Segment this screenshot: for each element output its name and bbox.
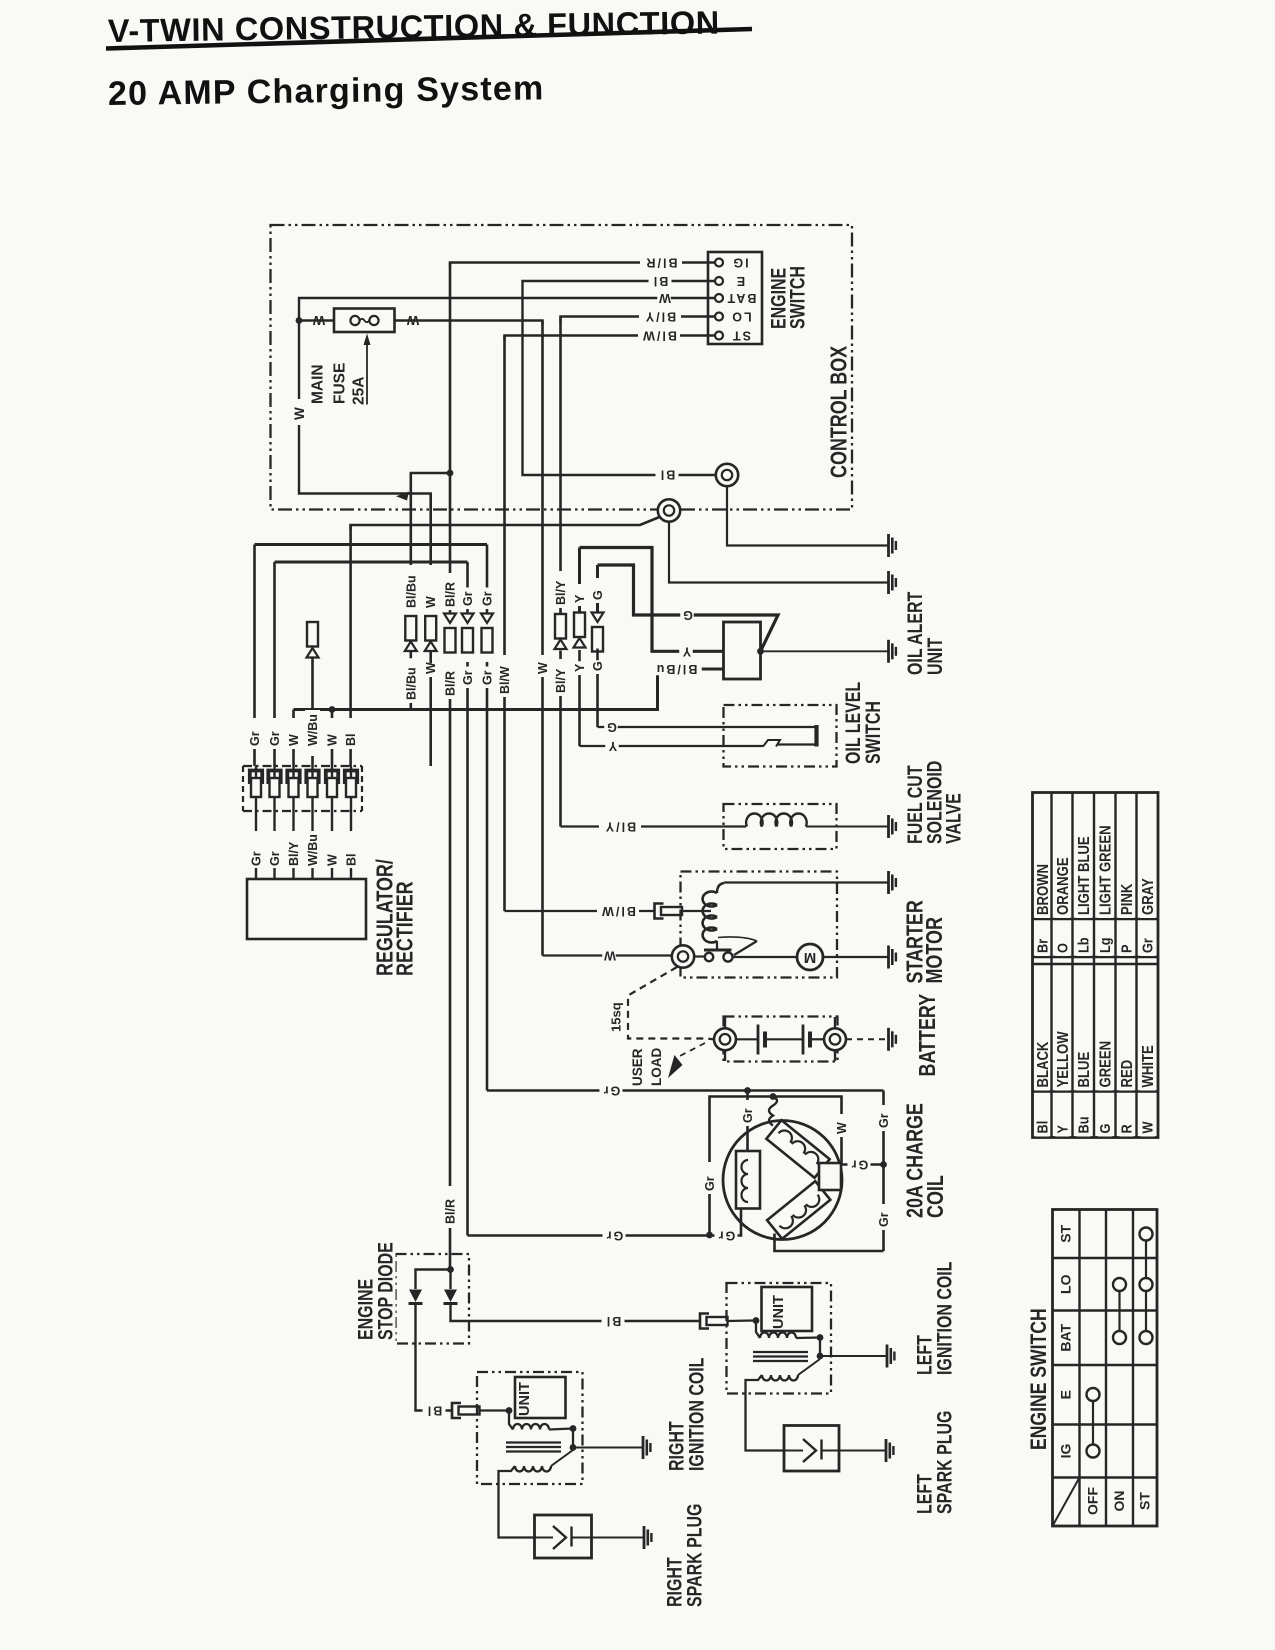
- label Bl/W (starter): [597, 905, 639, 918]
- wire to diode D1: [416, 1270, 451, 1290]
- left coil core: [753, 1351, 808, 1353]
- label Bl (right coil): [423, 1404, 446, 1417]
- wire Bl/R column: [449, 263, 452, 614]
- battery terminal left: [714, 1028, 736, 1050]
- label MAIN FUSE 25A: [310, 363, 325, 407]
- wire Gr top line: [487, 1089, 884, 1092]
- left ignition coil box: [727, 1283, 832, 1394]
- starter solenoid coil: [703, 892, 717, 943]
- wire Gr2 column left: [273, 562, 276, 766]
- wire W column left (from bus): [292, 710, 295, 767]
- svg-text:LIGHT GREEN: LIGHT GREEN: [1097, 825, 1114, 915]
- svg-text:UNIT: UNIT: [771, 1295, 787, 1329]
- wire left coil top: [746, 1091, 749, 1152]
- subtitle: [108, 69, 545, 113]
- table cell O: [1055, 942, 1069, 956]
- svg-text:BATTERY: BATTERY: [915, 994, 941, 1077]
- svg-text:W: W: [1139, 1121, 1156, 1134]
- strip pin 3: [287, 771, 299, 785]
- svg-text:W: W: [326, 854, 340, 866]
- wire Bl/Y column: [559, 317, 562, 615]
- title underline: [106, 29, 752, 49]
- table cell BROWN: [1035, 871, 1050, 918]
- svg-text:25A: 25A: [351, 377, 368, 405]
- left plug gap: [784, 1450, 803, 1452]
- label 20A CHARGE COIL: [904, 1104, 926, 1221]
- wire from ring2 to ground: [669, 522, 889, 583]
- engine switch box: [708, 252, 762, 344]
- right coil secondary: [515, 1466, 551, 1472]
- starter contact circles: [705, 953, 713, 961]
- junction dot left primary: [817, 1334, 824, 1341]
- strip pin 2: [268, 771, 280, 785]
- svg-text:IG: IG: [1058, 1444, 1074, 1459]
- left coil UNIT box: [762, 1287, 813, 1331]
- left spark plug box: [784, 1426, 839, 1472]
- svg-text:LOAD: LOAD: [649, 1048, 664, 1086]
- wire Bl/R tee to Bl/Bu column: [411, 473, 450, 478]
- connector ring starter: [672, 945, 694, 967]
- junction dot stop diode: [447, 1266, 454, 1273]
- wire W: BAT terminal to fuse junction: [299, 298, 715, 497]
- svg-text:YELLOW: YELLOW: [1055, 1031, 1072, 1087]
- wire W to starter: [543, 954, 672, 956]
- svg-text:Br: Br: [1033, 938, 1050, 953]
- engine stop diode box: [396, 1254, 470, 1344]
- svg-text:ST: ST: [731, 329, 751, 343]
- svg-text:W: W: [326, 734, 340, 746]
- svg-text:ON: ON: [1111, 1491, 1127, 1512]
- wire left plug ground: [839, 1450, 886, 1452]
- ST contacts BAT-LO-ST: [1145, 1241, 1147, 1279]
- svg-text:E: E: [1058, 1390, 1074, 1399]
- oil alert unit box: [724, 622, 761, 679]
- wire D2 to left coil: [451, 1304, 701, 1322]
- label Y (oil level): [605, 740, 619, 753]
- ground (solenoid): [887, 871, 890, 894]
- svg-text:Bl/R: Bl/R: [444, 1199, 458, 1224]
- solenoid coil L1: [746, 814, 807, 827]
- ground (right coil): [642, 1436, 645, 1459]
- diode D2: [449, 1270, 451, 1290]
- connector ring 2 (on box edge): [658, 499, 680, 521]
- label W (below): [425, 663, 437, 677]
- svg-text:BROWN: BROWN: [1035, 864, 1052, 915]
- svg-text:SWITCH: SWITCH: [785, 266, 809, 329]
- label RIGHT IGNITION COIL: [667, 1419, 687, 1474]
- table cell LIGHT BLUE: [1076, 831, 1091, 918]
- svg-text:O: O: [1053, 943, 1070, 953]
- wire contacts to motor: [733, 956, 798, 958]
- bottom-right stator coil: [767, 1181, 830, 1239]
- strip pin 1: [250, 771, 262, 785]
- svg-text:Bl/Bu: Bl/Bu: [655, 662, 698, 676]
- table cell WHITE: [1140, 1044, 1155, 1091]
- label Bl/Bu (above): [405, 566, 417, 611]
- svg-text:CONTROL BOX: CONTROL BOX: [826, 346, 852, 478]
- ground (right plug): [643, 1526, 646, 1549]
- svg-text:W: W: [424, 662, 438, 674]
- wire right plug ground: [592, 1537, 645, 1539]
- table cell W: [1141, 1123, 1155, 1137]
- svg-text:Bl: Bl: [1033, 1121, 1050, 1134]
- svg-text:Bl/W: Bl/W: [641, 329, 677, 343]
- label Bl/Y (fuel cut): [599, 820, 641, 833]
- label ENGINE STOP DIODE: [356, 1278, 376, 1343]
- junction dot core right: [570, 1444, 577, 1451]
- label CONTROL BOX: [828, 353, 850, 481]
- label Gr A (above): [462, 588, 474, 610]
- wire W5 column left (from bus dot): [331, 710, 334, 767]
- strip pin 4: [306, 771, 318, 785]
- label OIL ALERT UNIT: [905, 583, 925, 678]
- svg-text:Bl: Bl: [345, 854, 359, 867]
- table cell GRAY: [1140, 879, 1155, 918]
- connector Gr B: [481, 614, 493, 624]
- label BATTERY: [916, 996, 938, 1080]
- junction dot primary right: [570, 1425, 577, 1432]
- connector strip outline: [243, 765, 362, 767]
- label G (oil alert): [680, 609, 694, 622]
- svg-text:Y: Y: [573, 663, 587, 672]
- svg-text:STOP DIODE: STOP DIODE: [373, 1242, 397, 1340]
- user load dashed branch: [676, 1043, 705, 1058]
- label Gr (center): [848, 1158, 871, 1171]
- svg-text:PINK: PINK: [1119, 883, 1136, 915]
- label W2 (mid): [535, 655, 551, 675]
- label G (above): [590, 578, 605, 600]
- table cell PINK: [1119, 879, 1134, 918]
- label Y (below): [574, 661, 586, 675]
- battery terminal right: [824, 1028, 846, 1050]
- svg-text:MOTOR: MOTOR: [922, 917, 948, 983]
- svg-text:Bl/Y: Bl/Y: [287, 841, 301, 866]
- wire motor to ground: [823, 956, 889, 958]
- wire oil alert ground: [761, 650, 889, 652]
- svg-text:G: G: [605, 720, 617, 734]
- junction dot line2: [770, 1093, 777, 1100]
- svg-text:W: W: [835, 1122, 849, 1134]
- svg-text:Gr: Gr: [481, 670, 495, 685]
- label Bl/R: [640, 256, 682, 269]
- svg-text:Gr: Gr: [268, 851, 282, 866]
- label LEFT IGNITION COIL: [915, 1332, 935, 1378]
- svg-text:Bl: Bl: [652, 274, 669, 288]
- wire Bl/Y: LO terminal to column: [561, 317, 716, 323]
- svg-text:LO: LO: [1058, 1274, 1074, 1294]
- table cell BLACK: [1035, 1044, 1050, 1091]
- wire solenoid to ground: [806, 826, 889, 828]
- svg-text:RECTIFIER: RECTIFIER: [392, 881, 418, 976]
- wire W column (group1): [429, 494, 432, 566]
- label USER LOAD: [631, 1050, 644, 1089]
- table cell P: [1119, 942, 1133, 956]
- wire Gr column A: [466, 562, 469, 613]
- svg-text:20 AMP Charging System: 20 AMP Charging System: [108, 69, 545, 113]
- svg-text:W: W: [287, 734, 301, 746]
- main fuse F1 25A: [334, 309, 395, 333]
- solenoid plunger: [716, 941, 718, 949]
- center terminal block: [819, 1163, 841, 1190]
- svg-text:Gr: Gr: [741, 1108, 755, 1123]
- label W (starter): [602, 949, 616, 962]
- label W (left of fuse): [311, 314, 325, 327]
- label LEFT SPARK PLUG: [915, 1471, 935, 1517]
- svg-text:UNIT: UNIT: [517, 1382, 533, 1416]
- label Gr B (below): [481, 667, 493, 689]
- svg-text:BLACK: BLACK: [1035, 1041, 1052, 1087]
- table cell RED: [1119, 1060, 1134, 1090]
- connector W: [425, 616, 436, 641]
- label Bl/Y (below): [555, 659, 567, 696]
- user load arrow: [668, 1055, 683, 1078]
- svg-text:Gr: Gr: [877, 1212, 891, 1227]
- wire W fuse right to W2 column: [395, 321, 543, 326]
- label W (above): [425, 597, 437, 611]
- label Bl/Y (above): [555, 571, 567, 608]
- wire Y bracket to oil alert: [580, 548, 723, 652]
- svg-text:Bl/Y: Bl/Y: [644, 310, 676, 324]
- label W on vertical wire: [291, 399, 307, 425]
- table cell Bu: [1077, 1115, 1091, 1137]
- wire Gr-A to coil bottom: [468, 1234, 710, 1237]
- right spark plug box: [535, 1515, 592, 1558]
- svg-text:IGNITION COIL: IGNITION COIL: [684, 1358, 708, 1471]
- svg-text:G: G: [1096, 1124, 1113, 1134]
- wire color code table: [1033, 793, 1159, 1138]
- svg-text:Gr: Gr: [481, 591, 495, 606]
- svg-text:W: W: [292, 407, 307, 420]
- table cell Gr: [1141, 934, 1155, 956]
- label Gr A (below): [462, 667, 474, 689]
- engine switch terminal E: [715, 277, 723, 285]
- label Bl near connector: [656, 468, 679, 481]
- right plug gap: [535, 1537, 554, 1539]
- connector spade left coil: [700, 1314, 709, 1329]
- label Gr (after dot): [715, 1229, 738, 1242]
- svg-text:Bl/R: Bl/R: [645, 256, 678, 270]
- junction dot W strip: [329, 706, 336, 713]
- table cell YELLOW: [1055, 1036, 1070, 1091]
- label Bl/R (lower): [444, 1190, 456, 1227]
- wire line2: [710, 1097, 842, 1235]
- junction dot right coil input: [506, 1407, 513, 1414]
- svg-text:MAIN: MAIN: [310, 364, 327, 404]
- top-right stator coil: [766, 1120, 829, 1178]
- label Bl/Bu (oil alert): [650, 663, 702, 676]
- label Y (above): [572, 584, 587, 604]
- right coil core: [506, 1441, 561, 1443]
- svg-text:Bl/Y: Bl/Y: [554, 668, 568, 693]
- float switch: [814, 725, 818, 747]
- svg-text:W: W: [602, 949, 616, 963]
- label RIGHT SPARK PLUG: [665, 1555, 685, 1610]
- svg-text:W: W: [424, 596, 438, 608]
- wire Bl/Y to solenoid: [561, 825, 747, 827]
- label Bl/Bu (below): [405, 658, 417, 703]
- label W (BAT wire): [657, 292, 671, 305]
- label STARTER MOTOR: [904, 903, 926, 987]
- wire W2 column: [541, 321, 544, 956]
- junction dot oil alert right: [757, 648, 764, 655]
- wire Bl column left: [349, 525, 352, 766]
- svg-text:Gr: Gr: [268, 731, 282, 746]
- connector G: [592, 613, 604, 623]
- engine switch terminal BAT: [715, 294, 723, 302]
- svg-text:Gr: Gr: [248, 731, 262, 746]
- label Bl (E wire): [649, 275, 672, 288]
- svg-text:Bl: Bl: [344, 734, 358, 747]
- svg-text:Bl/R: Bl/R: [444, 671, 458, 696]
- junction dot left coil input: [753, 1317, 760, 1324]
- table cell LIGHT GREEN: [1098, 823, 1113, 918]
- junction dot right vertical: [880, 1161, 887, 1168]
- table cell Lb: [1077, 934, 1091, 956]
- connector Bl/R: [444, 614, 456, 624]
- svg-text:W: W: [657, 291, 671, 305]
- wire W/Bu column left: [311, 658, 314, 767]
- right coil UNIT box: [515, 1377, 566, 1418]
- W zigzag wire to TR coil: [769, 1097, 777, 1126]
- svg-text:VALVE: VALVE: [941, 793, 965, 844]
- battery cells: [736, 1038, 758, 1040]
- battery box: [724, 1017, 838, 1062]
- svg-text:OFF: OFF: [1085, 1487, 1101, 1515]
- wire dot to left coil bottom: [710, 1209, 742, 1236]
- svg-text:GREEN: GREEN: [1097, 1041, 1114, 1088]
- svg-text:Bl: Bl: [659, 468, 676, 482]
- svg-text:BAT: BAT: [726, 291, 757, 305]
- wire left coil ground: [820, 1355, 887, 1357]
- wire Gr1 column left: [253, 545, 256, 767]
- junction dot top line: [744, 1087, 751, 1094]
- wire right coil to ground: [573, 1447, 643, 1449]
- svg-text:W/Bu: W/Bu: [306, 714, 320, 746]
- svg-text:Y: Y: [573, 594, 587, 603]
- label Gr (bottom wire): [603, 1229, 626, 1242]
- svg-text:Bl/R: Bl/R: [444, 582, 458, 607]
- fuel cut solenoid box: [724, 804, 837, 849]
- label G (below): [592, 660, 604, 674]
- svg-text:LO: LO: [730, 310, 751, 324]
- svg-text:IGNITION COIL: IGNITION COIL: [932, 1262, 956, 1375]
- svg-text:Bl/Bu: Bl/Bu: [404, 575, 418, 608]
- connector Bl/Y: [555, 614, 566, 639]
- label Gr (right top): [876, 1105, 892, 1129]
- label Y (oil alert): [679, 645, 693, 658]
- svg-text:15sq: 15sq: [609, 1002, 624, 1032]
- svg-text:RED: RED: [1119, 1060, 1136, 1088]
- charge coil circle: [723, 1121, 842, 1240]
- table cell R: [1119, 1123, 1133, 1137]
- diagonal wire from ring2 to Bl column: [351, 517, 660, 530]
- junction dot left core: [817, 1353, 824, 1360]
- junction dot bottom-left: [706, 1232, 713, 1239]
- table cell G: [1098, 1123, 1112, 1137]
- label REGULATOR/RECTIFIER: [374, 862, 396, 979]
- label W (right inner vertical): [834, 1114, 850, 1136]
- label OIL LEVEL SWITCH: [843, 672, 863, 767]
- svg-text:SPARK PLUG: SPARK PLUG: [682, 1504, 706, 1607]
- svg-text:E: E: [735, 274, 745, 288]
- svg-text:BLUE: BLUE: [1076, 1052, 1093, 1088]
- wire Y to oil level switch: [580, 745, 764, 747]
- connector spade Bl/W: [655, 904, 664, 919]
- svg-text:Y: Y: [681, 644, 691, 658]
- svg-text:Lg: Lg: [1096, 937, 1113, 953]
- svg-text:Bl/Y: Bl/Y: [604, 820, 636, 834]
- svg-text:Y: Y: [607, 739, 617, 753]
- starter motor box: [681, 872, 838, 978]
- junction dot Bl/R tee: [447, 470, 454, 477]
- diode D1: [409, 1290, 422, 1303]
- svg-text:Y: Y: [1053, 1124, 1070, 1133]
- svg-text:Gr: Gr: [250, 851, 264, 866]
- wire Y column: [578, 548, 581, 613]
- labels above connector strip: [247, 718, 262, 748]
- svg-text:Bl: Bl: [426, 1404, 443, 1418]
- svg-text:Gr: Gr: [877, 1113, 891, 1128]
- svg-text:G: G: [681, 608, 693, 622]
- ground (fuel cut): [887, 815, 890, 838]
- svg-text:M: M: [804, 949, 817, 966]
- svg-text:Bu: Bu: [1075, 1117, 1092, 1134]
- svg-text:Bl/W: Bl/W: [498, 666, 512, 694]
- labels below strip: [250, 848, 262, 870]
- svg-text:SWITCH: SWITCH: [861, 701, 885, 764]
- engine switch table: [1053, 1210, 1158, 1527]
- svg-text:ST: ST: [1137, 1492, 1153, 1510]
- strip pin 6: [345, 771, 357, 785]
- svg-text:Gr: Gr: [605, 1229, 624, 1243]
- svg-text:G: G: [591, 590, 605, 600]
- oil level switch box: [724, 705, 837, 767]
- table cell Bl: [1035, 1115, 1049, 1137]
- starter contact blade: [734, 941, 757, 955]
- svg-text:Gr: Gr: [461, 591, 475, 606]
- label Bl/W (mid): [497, 655, 513, 695]
- label Bl/Y: [639, 310, 681, 323]
- direction arrow on W wire: [396, 492, 409, 501]
- wire solenoid top to ground: [724, 881, 889, 883]
- wire Bl/R: IG terminal to column: [450, 263, 715, 269]
- connector Gr A: [462, 614, 474, 624]
- label 15sq: [610, 997, 622, 1035]
- wire Gr1 horizontal: [255, 543, 488, 546]
- svg-text:Gr: Gr: [461, 670, 475, 685]
- svg-text:USER: USER: [630, 1048, 645, 1086]
- ground (motor): [887, 946, 890, 969]
- label Bl (left coil): [602, 1315, 625, 1328]
- label W (right of fuse): [405, 314, 419, 327]
- svg-text:R: R: [1117, 1124, 1134, 1133]
- svg-text:Bl: Bl: [605, 1314, 622, 1328]
- wire G to oil level switch: [598, 726, 817, 728]
- svg-text:Gr: Gr: [1139, 938, 1156, 953]
- ground (left plug): [885, 1439, 888, 1462]
- label Gr B (above): [481, 588, 493, 610]
- engine switch terminal LO: [715, 313, 723, 321]
- wire battery to ground dashed: [846, 1038, 889, 1040]
- wire center block to right vertical: [841, 1163, 884, 1165]
- connector ring 1: [716, 464, 738, 486]
- svg-text:ST: ST: [1058, 1224, 1074, 1242]
- table diagonal: [1053, 1478, 1080, 1527]
- wire D1 to right coil: [416, 1304, 453, 1411]
- wire G column: [596, 565, 599, 613]
- label Gr (left vertical): [702, 1162, 718, 1192]
- label Bl/R (above): [444, 573, 456, 610]
